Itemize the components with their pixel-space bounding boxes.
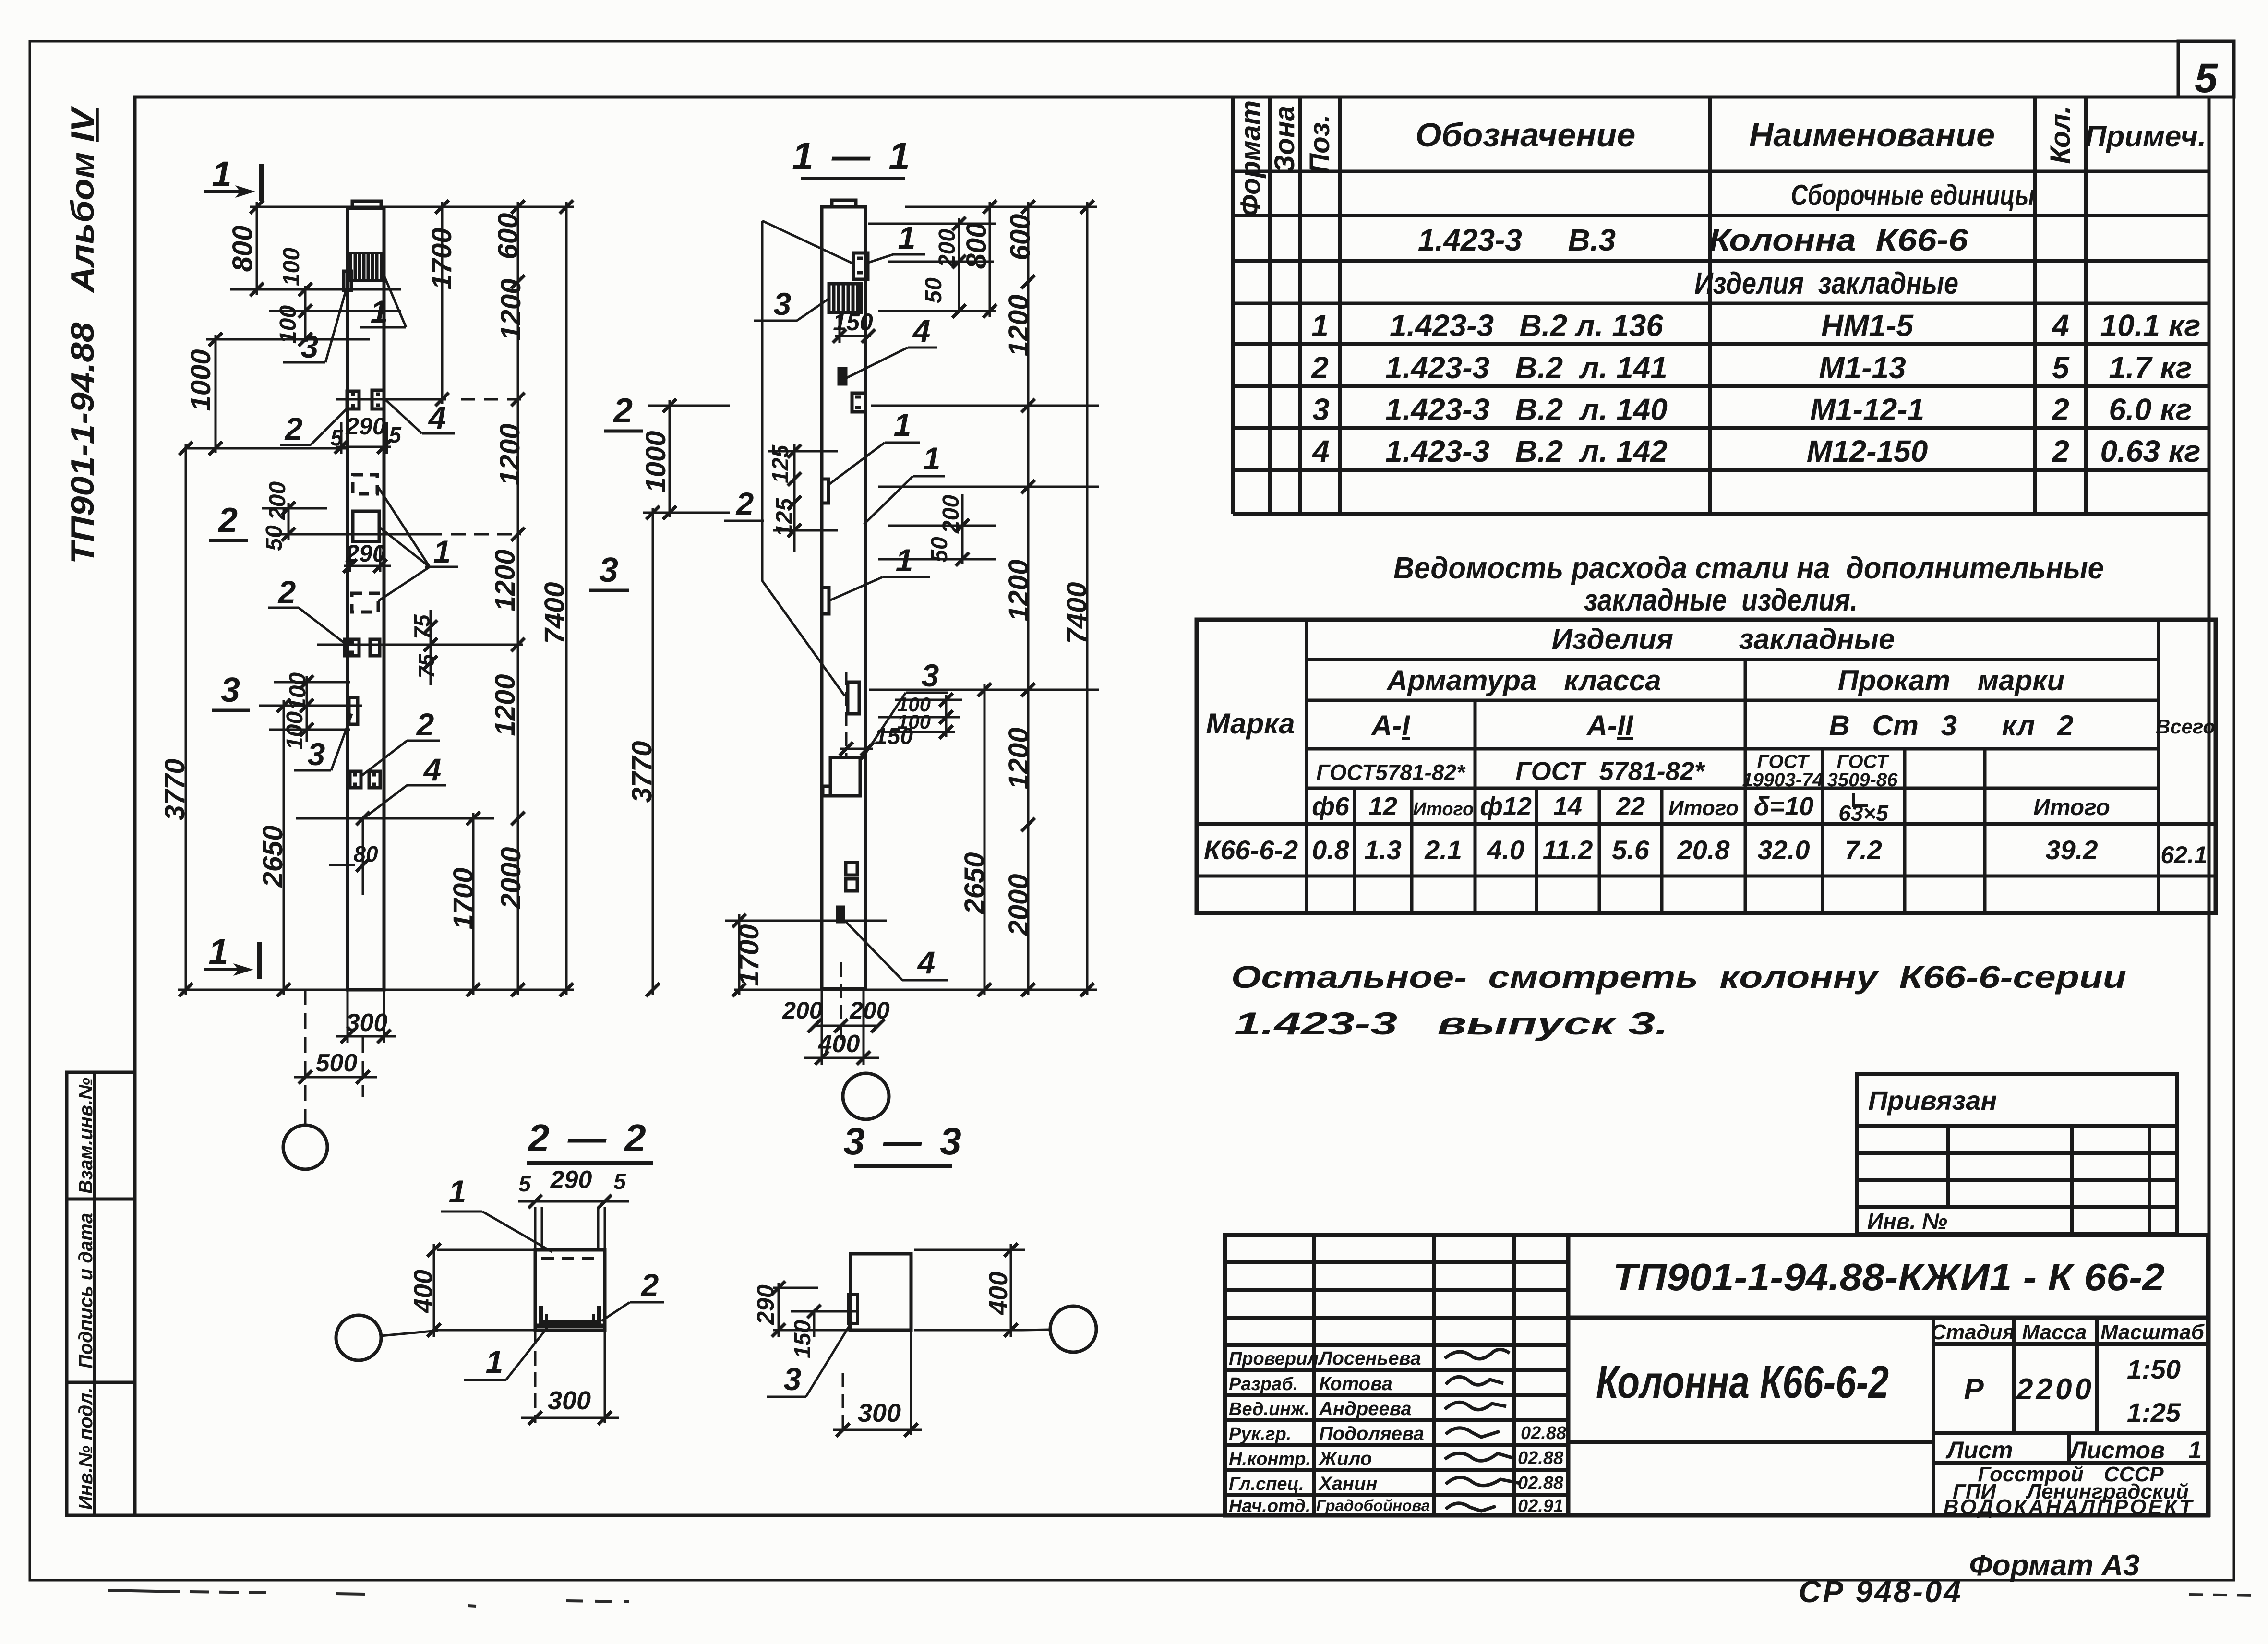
level line low 1918 bbox=[725, 920, 887, 922]
svg-text:3: 3 bbox=[784, 1361, 802, 1397]
level line B bbox=[317, 644, 523, 646]
plate right y819 bbox=[852, 393, 865, 412]
svg-text:150: 150 bbox=[833, 309, 873, 336]
dim line 1000 bbox=[215, 335, 217, 453]
svg-text:5.6: 5.6 bbox=[1612, 835, 1650, 865]
drawing2 leader labels bbox=[724, 221, 948, 980]
level C plate left pos2 bbox=[350, 771, 361, 788]
dim 150 above block bbox=[840, 748, 873, 750]
level line at 934 bbox=[185, 447, 348, 450]
svg-text:0.8: 0.8 bbox=[1312, 835, 1350, 865]
svg-text:3770: 3770 bbox=[626, 741, 658, 803]
svg-text:Н.контр.: Н.контр. bbox=[1229, 1449, 1311, 1469]
svg-text:1200: 1200 bbox=[495, 278, 527, 340]
dim line 3770 bbox=[185, 444, 187, 995]
svg-text:1: 1 bbox=[896, 542, 913, 578]
plate pos1 top right bbox=[853, 253, 868, 279]
100/100/150 tick lines bbox=[895, 699, 962, 701]
svg-text:1200: 1200 bbox=[494, 423, 526, 485]
svg-text:62.1: 62.1 bbox=[2160, 841, 2207, 868]
level line mid at 1014 bbox=[878, 486, 1099, 488]
section 3-3 axis circle bbox=[1050, 1306, 1096, 1352]
svg-text:63×5: 63×5 bbox=[1838, 801, 1889, 826]
svg-text:02.88: 02.88 bbox=[1521, 1423, 1567, 1443]
svg-text:Итого: Итого bbox=[1668, 796, 1739, 820]
svg-text:А-I: А-I bbox=[1370, 709, 1410, 742]
svg-text:2: 2 bbox=[640, 1267, 659, 1303]
level line at 1437 bbox=[869, 689, 1099, 691]
drawing1 dimension network bbox=[178, 202, 574, 1126]
svg-text:1200: 1200 bbox=[490, 674, 521, 736]
drawing1 dimension labels bbox=[159, 213, 570, 1077]
plate pos3 mid left bbox=[349, 697, 358, 724]
svg-text:200: 200 bbox=[935, 229, 960, 268]
svg-text:Изделия закладные: Изделия закладные bbox=[1694, 266, 1958, 300]
signature dates bbox=[1518, 1423, 1567, 1516]
plate pair lower bbox=[846, 863, 857, 875]
svg-text:1 — 1: 1 — 1 bbox=[792, 134, 913, 177]
svg-text:3: 3 bbox=[922, 658, 939, 693]
dim 80 bbox=[362, 818, 364, 895]
scan artifacts bottom margin bbox=[108, 1590, 2256, 1606]
svg-text:А-II: А-II bbox=[1586, 709, 1634, 742]
svg-text:19903-74: 19903-74 bbox=[1742, 769, 1823, 791]
svg-text:Марка: Марка bbox=[1206, 708, 1295, 740]
svg-text:02.88: 02.88 bbox=[1518, 1448, 1564, 1468]
svg-text:32.0: 32.0 bbox=[1758, 835, 1810, 865]
dim 1700 left bbox=[738, 914, 741, 995]
svg-text:2: 2 bbox=[284, 411, 303, 446]
dim 2650 line bbox=[984, 684, 986, 995]
svg-text:1.423-3 В.2 л. 136: 1.423-3 В.2 л. 136 bbox=[1390, 308, 1663, 343]
signature area labels bbox=[1229, 1348, 1430, 1516]
svg-text:Масса: Масса bbox=[2022, 1320, 2087, 1344]
svg-text:2: 2 bbox=[735, 486, 754, 521]
section mark 1 bottom bbox=[204, 932, 259, 979]
svg-text:400: 400 bbox=[409, 1270, 438, 1313]
svg-text:Изделия закладные: Изделия закладные bbox=[1552, 623, 1895, 655]
plate right mid bbox=[848, 682, 859, 714]
level line at 858 bbox=[871, 405, 1099, 407]
svg-text:800: 800 bbox=[961, 223, 992, 269]
svg-text:7400: 7400 bbox=[539, 582, 570, 644]
svg-text:600: 600 bbox=[1005, 214, 1036, 261]
svg-text:1: 1 bbox=[208, 932, 228, 972]
svg-text:14: 14 bbox=[1553, 792, 1582, 821]
svg-text:02.91: 02.91 bbox=[1518, 1496, 1563, 1516]
svg-text:2000: 2000 bbox=[1003, 874, 1034, 936]
level line at 648 bbox=[269, 310, 401, 312]
svg-text:4.0: 4.0 bbox=[1487, 835, 1524, 865]
svg-text:М12-150: М12-150 bbox=[1807, 434, 1928, 468]
svg-text:500: 500 bbox=[316, 1049, 358, 1077]
svg-text:Вед.инж.: Вед.инж. bbox=[1229, 1399, 1309, 1419]
svg-text:Подоляева: Подоляева bbox=[1319, 1423, 1424, 1444]
svg-text:2.1: 2.1 bbox=[1424, 835, 1462, 865]
svg-text:1: 1 bbox=[898, 220, 916, 255]
section 3-3 leader 3 bbox=[767, 1321, 852, 1397]
svg-text:02.88: 02.88 bbox=[1518, 1473, 1564, 1493]
svg-text:Итого: Итого bbox=[1413, 799, 1474, 819]
level A plate right pos4 bbox=[372, 390, 384, 409]
svg-text:1: 1 bbox=[1311, 308, 1329, 343]
svg-text:Стадия: Стадия bbox=[1931, 1320, 2015, 1344]
svg-text:1.3: 1.3 bbox=[1364, 835, 1402, 865]
svg-text:Андреева: Андреева bbox=[1319, 1398, 1412, 1419]
chain dim line right bbox=[1027, 202, 1030, 995]
drawing2 dimension network bbox=[725, 202, 1099, 1065]
svg-text:7400: 7400 bbox=[1061, 582, 1092, 644]
drawing1 axis circle bbox=[283, 1125, 327, 1169]
svg-text:Взам.инв.№: Взам.инв.№ bbox=[75, 1078, 96, 1194]
svg-text:М1-12-1: М1-12-1 bbox=[1810, 392, 1924, 427]
svg-text:290: 290 bbox=[345, 540, 386, 567]
hidden plate dashed upper bbox=[353, 475, 377, 494]
svg-text:3: 3 bbox=[308, 736, 325, 772]
parts list table grid bbox=[1233, 98, 2208, 514]
svg-text:39.2: 39.2 bbox=[2046, 835, 2098, 865]
svg-text:10.1 кг: 10.1 кг bbox=[2100, 308, 2201, 343]
dim 7400 line bbox=[1086, 202, 1089, 995]
left margin stamp boxes bbox=[67, 1072, 135, 1515]
svg-text:300: 300 bbox=[548, 1386, 591, 1415]
svg-text:1700: 1700 bbox=[426, 228, 457, 289]
section 2-2 dims bbox=[381, 1201, 629, 1423]
svg-text:ф12: ф12 bbox=[1480, 792, 1532, 821]
svg-text:3: 3 bbox=[774, 286, 792, 322]
plate pos4 lower bbox=[838, 907, 843, 922]
svg-text:Лосеньева: Лосеньева bbox=[1318, 1348, 1421, 1369]
svg-text:Привязан: Привязан bbox=[1868, 1085, 1997, 1116]
svg-text:400: 400 bbox=[818, 1030, 860, 1058]
hidden plate dashed lower bbox=[352, 593, 378, 612]
plate pos4 small bbox=[839, 369, 846, 384]
svg-text:20.8: 20.8 bbox=[1677, 835, 1730, 865]
drawing2 axis circle bbox=[843, 1073, 889, 1119]
dim line 1700 top bbox=[441, 202, 444, 404]
svg-text:1200: 1200 bbox=[490, 549, 521, 611]
svg-text:Колонна К66-6: Колонна К66-6 bbox=[1709, 223, 1968, 257]
svg-text:Жило: Жило bbox=[1318, 1448, 1372, 1469]
dim 75/75 carrier bbox=[430, 610, 432, 685]
svg-text:Колонна К66-6-2: Колонна К66-6-2 bbox=[1596, 1356, 1889, 1408]
section 2-2 leaders bbox=[441, 1212, 664, 1380]
level line at 707 bbox=[206, 338, 370, 341]
parts table rows bbox=[1311, 179, 2200, 468]
svg-text:ГОСТ5781-82*: ГОСТ5781-82* bbox=[1316, 760, 1466, 785]
drawing2 dimension labels bbox=[733, 214, 1092, 1058]
svg-text:100: 100 bbox=[279, 248, 304, 286]
svg-text:3 — 3: 3 — 3 bbox=[843, 1120, 965, 1163]
svg-text:Проверил: Проверил bbox=[1229, 1349, 1319, 1369]
svg-text:5: 5 bbox=[2195, 55, 2218, 101]
svg-text:4: 4 bbox=[428, 400, 446, 435]
bottom level line bbox=[734, 989, 1097, 991]
svg-text:Котова: Котова bbox=[1319, 1373, 1392, 1394]
chain dim line 600/1200/2000 bbox=[517, 202, 519, 995]
svg-text:2: 2 bbox=[277, 574, 296, 610]
svg-text:100: 100 bbox=[276, 305, 301, 344]
top level line bbox=[250, 206, 574, 208]
svg-text:1700: 1700 bbox=[733, 924, 765, 986]
bottom extensions bbox=[347, 990, 349, 1043]
svg-text:НМ1-5: НМ1-5 bbox=[1821, 308, 1914, 343]
svg-text:1: 1 bbox=[212, 154, 231, 194]
svg-text:2000: 2000 bbox=[495, 847, 527, 909]
svg-text:Остальное- смотреть колонну: Остальное- смотреть колонну К66-6-серии bbox=[1231, 959, 2126, 995]
svg-text:290: 290 bbox=[345, 413, 386, 440]
svg-text:3770: 3770 bbox=[159, 758, 191, 820]
svg-text:1.423-3 В.2 л. 141: 1.423-3 В.2 л. 141 bbox=[1385, 350, 1668, 385]
svg-text:800: 800 bbox=[227, 226, 258, 272]
diameter row bbox=[1312, 792, 1813, 821]
svg-text:Прокат марки: Прокат марки bbox=[1838, 664, 2064, 696]
dim line 2650 bbox=[283, 700, 285, 995]
svg-text:150: 150 bbox=[875, 724, 913, 749]
svg-text:Кол.: Кол. bbox=[2045, 106, 2076, 164]
dim carrier 100/100 bbox=[304, 286, 307, 342]
page number box bbox=[2178, 41, 2234, 97]
svg-text:Р: Р bbox=[1964, 1373, 1984, 1406]
svg-text:ТП901-1-94.88-КЖИ1 - К 66-2: ТП901-1-94.88-КЖИ1 - К 66-2 bbox=[1613, 1256, 2165, 1298]
svg-text:200: 200 bbox=[265, 481, 290, 520]
svg-text:3509-86: 3509-86 bbox=[1827, 769, 1898, 791]
dim 5-290-5 line bbox=[336, 446, 391, 448]
dim line 800 bbox=[256, 202, 258, 295]
opening solid rect bbox=[353, 511, 379, 541]
column body bbox=[348, 208, 384, 990]
svg-text:2: 2 bbox=[612, 392, 633, 430]
svg-text:3: 3 bbox=[1312, 392, 1330, 427]
svg-text:1000: 1000 bbox=[185, 349, 216, 411]
drawing1 dim ticks bbox=[179, 200, 573, 1084]
column top cap bbox=[352, 201, 381, 208]
level line 1470 pos3 bbox=[259, 705, 362, 707]
svg-text:12: 12 bbox=[1368, 792, 1397, 821]
svg-text:1.423-3 В.3: 1.423-3 В.3 bbox=[1418, 223, 1616, 257]
section 2-2 axis circle bbox=[336, 1315, 381, 1360]
svg-text:Масштаб: Масштаб bbox=[2100, 1320, 2205, 1344]
svg-text:22: 22 bbox=[1616, 792, 1645, 821]
svg-text:2: 2 bbox=[2052, 434, 2069, 468]
svg-text:1700: 1700 bbox=[448, 867, 479, 929]
svg-text:7.2: 7.2 bbox=[1845, 835, 1882, 865]
svg-text:125: 125 bbox=[768, 444, 793, 483]
svg-text:Формат: Формат bbox=[1235, 100, 1266, 216]
dim line 1700 bottom bbox=[472, 813, 475, 995]
svg-text:75: 75 bbox=[409, 614, 434, 639]
svg-text:2: 2 bbox=[416, 707, 434, 742]
svg-text:5: 5 bbox=[518, 1171, 531, 1196]
svg-text:1: 1 bbox=[371, 294, 388, 329]
section 3-3 square bbox=[849, 1254, 911, 1330]
dims 200/50 left of opening bbox=[262, 507, 327, 510]
svg-text:4: 4 bbox=[917, 945, 936, 980]
section 3-3 dims bbox=[773, 1244, 1050, 1435]
column top cap bbox=[832, 200, 856, 207]
dim 290 under opening bbox=[344, 565, 391, 567]
svg-text:δ=10: δ=10 bbox=[1754, 792, 1814, 821]
svg-text:1.7 кг: 1.7 кг bbox=[2109, 350, 2192, 385]
dims 125/125 carrier left bbox=[793, 444, 796, 552]
svg-text:300: 300 bbox=[858, 1399, 901, 1428]
svg-text:2: 2 bbox=[217, 501, 238, 540]
svg-text:М1-13: М1-13 bbox=[1819, 350, 1906, 385]
svg-text:Формат А3: Формат А3 bbox=[1969, 1549, 2139, 1582]
dims 100/100 at pos3 bbox=[306, 676, 308, 742]
svg-text:1.423-3 выпуск 3.: 1.423-3 выпуск 3. bbox=[1234, 1006, 1668, 1041]
svg-text:400: 400 bbox=[984, 1272, 1013, 1315]
svg-text:3: 3 bbox=[599, 551, 618, 589]
svg-text:75: 75 bbox=[414, 653, 439, 679]
svg-text:125: 125 bbox=[772, 498, 797, 537]
svg-text:Инв. №: Инв. № bbox=[1867, 1209, 1947, 1234]
svg-text:50: 50 bbox=[262, 525, 287, 551]
embedded plate pos3 small left bbox=[344, 271, 351, 290]
svg-text:1: 1 bbox=[449, 1174, 467, 1209]
svg-text:Сборочные единицы: Сборочные единицы bbox=[1791, 179, 2035, 211]
svg-text:300: 300 bbox=[346, 1009, 388, 1037]
svg-text:1.423-3 В.2 л. 142: 1.423-3 В.2 л. 142 bbox=[1385, 434, 1668, 468]
svg-text:Ведомость расхода стали на до: Ведомость расхода стали на дополнительны… bbox=[1393, 551, 2104, 585]
svg-text:1200: 1200 bbox=[1003, 294, 1034, 356]
svg-text:Нач.отд.: Нач.отд. bbox=[1229, 1496, 1310, 1516]
big embedded block pos3 bbox=[830, 757, 860, 796]
steel table data row bbox=[1204, 835, 2208, 868]
svg-text:290: 290 bbox=[550, 1166, 592, 1194]
svg-text:11.2: 11.2 bbox=[1543, 835, 1593, 865]
svg-text:5: 5 bbox=[330, 425, 343, 450]
svg-text:Рук.гр.: Рук.гр. bbox=[1229, 1424, 1291, 1444]
svg-text:4: 4 bbox=[1311, 434, 1330, 468]
section mark 1 top bbox=[204, 154, 261, 201]
svg-text:2 — 2: 2 — 2 bbox=[527, 1116, 649, 1159]
svg-text:Всего: Всего bbox=[2156, 715, 2215, 738]
svg-text:200: 200 bbox=[782, 997, 823, 1024]
bottom extensions bbox=[821, 990, 823, 1065]
dim 150 under hatch bbox=[835, 335, 871, 337]
svg-text:3: 3 bbox=[301, 329, 319, 364]
svg-text:50: 50 bbox=[927, 537, 952, 563]
svg-text:5: 5 bbox=[2052, 350, 2070, 385]
signature squiggles bbox=[1445, 1349, 1520, 1511]
svg-text:Зона: Зона bbox=[1269, 106, 1300, 173]
svg-text:4: 4 bbox=[2051, 308, 2069, 343]
svg-text:2: 2 bbox=[1311, 350, 1329, 385]
svg-text:ТП901-1-94.88 Альбом IV: ТП901-1-94.88 Альбом IV bbox=[64, 105, 101, 564]
dim line 7400 bbox=[565, 202, 568, 995]
inner drawing frame bbox=[135, 97, 2209, 1515]
level line C lower bbox=[296, 817, 494, 820]
drawing1 leader labels bbox=[268, 269, 458, 816]
hatched plate pos3 bbox=[829, 284, 861, 312]
svg-text:Инв.№ подл.: Инв.№ подл. bbox=[75, 1388, 96, 1510]
block axis dash bbox=[845, 672, 848, 756]
level line at 603 bbox=[230, 288, 401, 291]
svg-text:Арматура класса: Арматура класса bbox=[1386, 664, 1661, 696]
svg-text:Лист: Лист bbox=[1945, 1437, 2013, 1464]
svg-text:200: 200 bbox=[938, 495, 964, 534]
drawing2 dim ticks bbox=[732, 200, 1094, 1065]
svg-text:200: 200 bbox=[849, 997, 890, 1024]
svg-text:1200: 1200 bbox=[1003, 559, 1034, 621]
svg-text:Поз.: Поз. bbox=[1304, 115, 1335, 174]
svg-text:600: 600 bbox=[492, 213, 524, 260]
svg-text:100: 100 bbox=[285, 672, 311, 711]
svg-text:Градобойнова: Градобойнова bbox=[1316, 1497, 1430, 1514]
svg-text:1: 1 bbox=[486, 1344, 504, 1380]
svg-text:К66-6-2: К66-6-2 bbox=[1204, 835, 1298, 865]
steel table header texts bbox=[1206, 623, 2215, 786]
steel table grid bbox=[1197, 620, 2216, 913]
parts table headers bbox=[1235, 100, 2206, 216]
svg-text:2650: 2650 bbox=[959, 852, 990, 914]
level C plate right pos4 bbox=[369, 771, 380, 788]
svg-text:4: 4 bbox=[912, 313, 931, 348]
svg-text:2200: 2200 bbox=[2016, 1373, 2094, 1406]
svg-text:Ханин: Ханин bbox=[1318, 1473, 1378, 1494]
svg-text:1: 1 bbox=[923, 441, 941, 476]
angle profile symbol bbox=[1854, 793, 1868, 805]
svg-text:закладные изделия.: закладные изделия. bbox=[1584, 583, 1858, 617]
svg-text:Гл.спец.: Гл.спец. bbox=[1229, 1474, 1304, 1494]
privyazan stamp table bbox=[1857, 1074, 2177, 1234]
svg-text:СР 948-04: СР 948-04 bbox=[1799, 1574, 1963, 1609]
svg-text:150: 150 bbox=[790, 1320, 816, 1358]
svg-text:2650: 2650 bbox=[257, 825, 288, 888]
svg-text:5: 5 bbox=[389, 422, 402, 447]
svg-text:1: 1 bbox=[433, 534, 451, 569]
dims 200/50 top carrier bbox=[958, 218, 960, 311]
svg-text:ВОДОКАНАЛПРОЕКТ: ВОДОКАНАЛПРОЕКТ bbox=[1944, 1495, 2195, 1519]
svg-text:Листов 1: Листов 1 bbox=[2069, 1437, 2202, 1464]
level A plate left pos2 bbox=[347, 391, 359, 409]
dim 3770 drawing2 left bbox=[652, 508, 654, 995]
svg-text:0.63 кг: 0.63 кг bbox=[2100, 434, 2201, 468]
svg-text:3: 3 bbox=[221, 671, 240, 709]
svg-text:Обозначение: Обозначение bbox=[1416, 116, 1636, 154]
plate pos1 left mid bbox=[822, 588, 829, 614]
level B plate right bbox=[370, 639, 380, 656]
embedded plate pos1 hatched bbox=[351, 253, 382, 280]
bottom level line bbox=[178, 989, 574, 991]
svg-text:1000: 1000 bbox=[640, 431, 672, 492]
title block grid bbox=[1225, 1235, 2208, 1515]
svg-text:100: 100 bbox=[282, 711, 308, 750]
svg-text:Подпись и дата: Подпись и дата bbox=[75, 1213, 96, 1368]
svg-text:Примеч.: Примеч. bbox=[2085, 120, 2207, 153]
column body section bbox=[822, 207, 865, 989]
svg-text:ф6: ф6 bbox=[1312, 792, 1350, 821]
svg-text:50: 50 bbox=[921, 277, 947, 303]
svg-text:6.0 кг: 6.0 кг bbox=[2109, 392, 2192, 427]
svg-text:В Ст 3 кл 2: В Ст 3 кл 2 bbox=[1829, 709, 2073, 742]
small GOST cells bbox=[1742, 751, 1898, 791]
svg-text:1:50: 1:50 bbox=[2127, 1354, 2181, 1384]
svg-text:80: 80 bbox=[353, 841, 378, 866]
dim 200-200 bbox=[815, 1025, 878, 1027]
svg-text:4: 4 bbox=[423, 752, 442, 787]
level B plate left pos2 bbox=[345, 639, 359, 656]
section 2-2 square bbox=[535, 1250, 605, 1330]
svg-text:Разраб.: Разраб. bbox=[1229, 1374, 1298, 1394]
svg-text:1.423-3 В.2 л. 140: 1.423-3 В.2 л. 140 bbox=[1385, 392, 1668, 427]
dims 200/50 mid carrier bbox=[961, 494, 964, 564]
svg-text:290: 290 bbox=[752, 1284, 779, 1325]
svg-text:2: 2 bbox=[2052, 392, 2069, 427]
dim 1000 drawing2 left bbox=[643, 400, 730, 517]
svg-text:1: 1 bbox=[894, 407, 912, 443]
